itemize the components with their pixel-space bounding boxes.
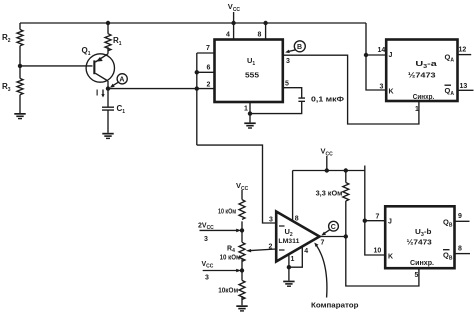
svg-text:3: 3 xyxy=(205,275,209,282)
ground under R3 xyxy=(14,113,25,119)
svg-text:3: 3 xyxy=(269,217,273,224)
wire 555 pins 7-6-2 tie xyxy=(196,53,198,145)
capacitor 0.1uF xyxy=(298,98,305,101)
node C junction xyxy=(344,234,348,238)
wire pin6 stub xyxy=(197,71,215,73)
svg-text:8: 8 xyxy=(258,32,262,39)
svg-text:J: J xyxy=(389,52,393,59)
wire U2 pin8 lead xyxy=(292,171,294,222)
node Vcc mid xyxy=(325,168,329,172)
node A xyxy=(110,74,127,88)
wire Vcc horizontal to U3-b J/K xyxy=(293,166,386,256)
ground divider xyxy=(236,305,247,311)
wire rail to J/K of U3-a xyxy=(366,23,386,90)
svg-text:½7473: ½7473 xyxy=(408,71,436,80)
op-amp U2 LM311 xyxy=(276,212,319,262)
wire pin7 stub xyxy=(197,52,215,54)
wire C1 to ground xyxy=(107,110,109,133)
svg-text:8: 8 xyxy=(295,216,299,223)
resistor 3.3k xyxy=(343,171,349,237)
node pin8 rail xyxy=(263,21,267,25)
svg-text:Синхр.: Синхр. xyxy=(413,94,435,101)
svg-text:7: 7 xyxy=(206,45,210,52)
svg-text:2: 2 xyxy=(269,244,273,251)
svg-text:4: 4 xyxy=(226,32,230,39)
wire pin5 to bypass cap xyxy=(283,88,302,98)
node Vcc rail xyxy=(231,21,235,25)
capacitor C1 xyxy=(102,107,114,110)
svg-text:B: B xyxy=(297,44,302,51)
svg-text:13: 13 xyxy=(460,83,468,90)
resistor 10k bottom xyxy=(239,271,245,306)
wire cap to gnd xyxy=(250,101,302,113)
svg-text:C: C xyxy=(331,224,336,231)
node C xyxy=(321,221,338,235)
svg-text:J: J xyxy=(388,219,392,226)
wire emitter down xyxy=(107,81,109,107)
svg-text:3: 3 xyxy=(380,84,384,91)
svg-text:3: 3 xyxy=(204,236,208,243)
svg-text:10 кОм: 10 кОм xyxy=(218,209,236,216)
flip-flop U3-a box xyxy=(386,40,457,102)
wire node A to comparator plus input xyxy=(197,145,276,223)
resistor R3 xyxy=(17,78,23,94)
ground U2 xyxy=(283,281,294,287)
wire 555 pin3 output to U3-a clock xyxy=(283,55,419,124)
wire QB stub pin9 xyxy=(455,220,470,222)
node R1 top xyxy=(106,21,110,25)
svg-text:K: K xyxy=(389,89,394,96)
op-amp U1 555 box xyxy=(215,40,283,103)
node pin6 junction xyxy=(195,70,199,74)
wire QBbar stub pin8 xyxy=(455,253,471,255)
svg-text:2: 2 xyxy=(207,82,211,89)
wire Vcc lead to pin4 xyxy=(233,12,235,40)
svg-text:Компаратор: Компаратор xyxy=(311,301,359,310)
potentiometer R4 xyxy=(239,242,245,270)
wire base xyxy=(20,65,93,67)
svg-text:5: 5 xyxy=(415,272,419,279)
transistor Q1 xyxy=(82,46,115,82)
node pin2 junction xyxy=(195,86,199,90)
node J-b xyxy=(363,219,367,223)
wire pin2 stub xyxy=(197,88,215,90)
svg-text:½7473: ½7473 xyxy=(407,238,432,247)
svg-text:10кОм: 10кОм xyxy=(218,287,238,294)
node emitter junction xyxy=(106,86,110,90)
svg-text:5: 5 xyxy=(285,81,289,88)
node J-a xyxy=(364,53,368,57)
node pin1 gnd junction xyxy=(248,111,252,115)
resistor 10k top xyxy=(239,200,245,243)
resistor R1 xyxy=(105,23,111,54)
wire node A to pin2 xyxy=(108,88,197,90)
wire top Vcc rail xyxy=(20,22,366,24)
node tap2 xyxy=(240,268,244,272)
node base junction xyxy=(18,64,22,68)
wire pin1 to ground xyxy=(249,102,251,122)
wire left branch R2/R3 xyxy=(19,23,21,113)
input dashes xyxy=(279,226,285,250)
wire node C to U3-b clock xyxy=(346,237,419,287)
ground under pin1 xyxy=(244,122,255,128)
svg-text:1: 1 xyxy=(291,256,295,263)
wire divider vcc lead xyxy=(241,190,243,200)
svg-text:7: 7 xyxy=(376,214,380,221)
wire J-b stub xyxy=(365,220,385,222)
svg-text:K: K xyxy=(388,254,393,261)
svg-text:4: 4 xyxy=(304,248,308,255)
svg-text:0,1 мкФ: 0,1 мкФ xyxy=(311,96,344,103)
wire QA stub pin12 xyxy=(458,54,472,56)
node B xyxy=(285,41,305,53)
svg-text:3: 3 xyxy=(286,58,290,65)
wire pin8 xyxy=(265,23,267,40)
node tap1 xyxy=(240,228,244,232)
svg-text:1: 1 xyxy=(415,106,419,113)
svg-text:14: 14 xyxy=(378,47,386,54)
resistor R2 xyxy=(17,30,23,46)
svg-text:A: A xyxy=(119,77,124,84)
svg-text:9: 9 xyxy=(458,213,462,220)
wire QAbar stub pin13 xyxy=(458,89,474,91)
svg-text:10: 10 xyxy=(374,248,382,255)
svg-text:I: I xyxy=(96,89,98,98)
svg-text:7: 7 xyxy=(321,240,325,247)
flip-flop U3-b box xyxy=(385,206,454,268)
wiper R4 to U2 pin2 xyxy=(250,249,277,251)
ground under C1 xyxy=(102,133,113,139)
svg-text:LM311: LM311 xyxy=(278,238,299,245)
wire U2 output xyxy=(320,236,346,238)
svg-text:3,3 кОм: 3,3 кОм xyxy=(316,190,343,197)
svg-text:555: 555 xyxy=(245,71,259,80)
svg-text:6: 6 xyxy=(207,65,211,72)
svg-text:8: 8 xyxy=(458,246,462,253)
wire J-a stub xyxy=(366,54,386,56)
svg-text:12: 12 xyxy=(459,47,467,54)
wire U2 pin1/pin4 to ground xyxy=(289,247,302,267)
svg-text:Синхр.: Синхр. xyxy=(410,260,434,267)
svg-text:10 кОм: 10 кОм xyxy=(220,254,241,261)
wire Vcc mid lead xyxy=(326,156,328,171)
svg-text:1: 1 xyxy=(244,106,248,113)
